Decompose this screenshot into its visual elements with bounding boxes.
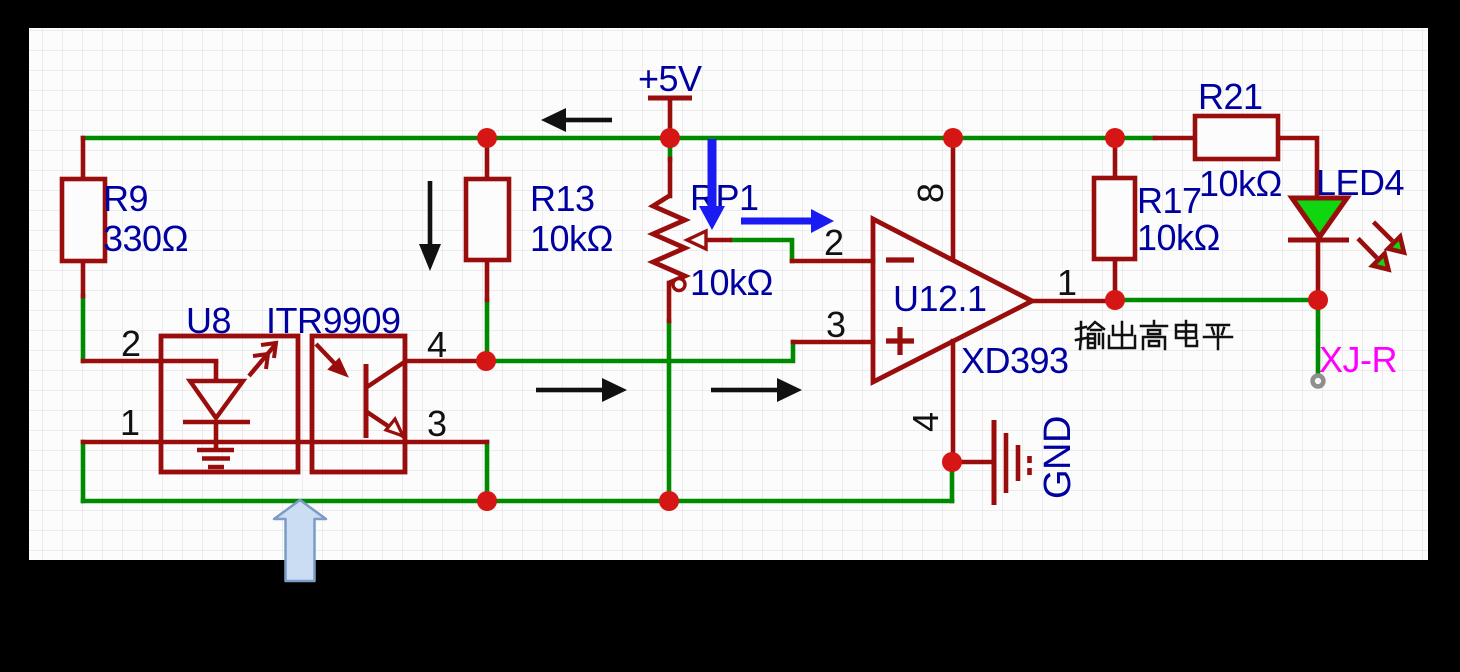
- svg-text:4: 4: [905, 412, 946, 432]
- opto LED ground bars: [197, 450, 234, 467]
- svg-text:RP1: RP1: [690, 177, 759, 218]
- wire R9 lower lead green: [81, 296, 86, 361]
- svg-text:2: 2: [121, 323, 141, 364]
- junction R17 top: [1105, 128, 1125, 148]
- wire left drop to bottom bus: [81, 442, 86, 501]
- wire top bus (+5V net): [83, 136, 1155, 141]
- wire GND drop: [950, 462, 955, 501]
- svg-text:10kΩ: 10kΩ: [1199, 163, 1282, 204]
- junction bus pin3: [477, 491, 497, 511]
- svg-text:10kΩ: 10kΩ: [530, 218, 613, 259]
- wire output net to LED: [1115, 298, 1318, 303]
- svg-text:GND: GND: [1037, 416, 1079, 499]
- resistor R17: [1094, 178, 1135, 259]
- junction +5V: [660, 128, 680, 148]
- black arrow down (left of R13): [419, 181, 441, 271]
- black arrow right (first): [536, 378, 627, 402]
- svg-text:R21: R21: [1198, 76, 1263, 117]
- wire LED to XJ-R: [1316, 300, 1321, 378]
- op-amp U12.1: [873, 219, 1032, 382]
- svg-text:10kΩ: 10kΩ: [1137, 217, 1220, 258]
- svg-text:R13: R13: [530, 178, 595, 219]
- wire R17 top lead: [1113, 138, 1118, 178]
- wire opto pin4: [405, 359, 486, 364]
- svg-text:XJ-R: XJ-R: [1319, 339, 1397, 380]
- blue arrow right: [741, 209, 834, 233]
- svg-text:LED4: LED4: [1316, 162, 1404, 203]
- char 电: [1176, 321, 1197, 346]
- ground GND symbol: [952, 420, 1030, 505]
- wire RP1 lower lead to bus: [667, 321, 672, 501]
- canvas background: [29, 28, 1428, 560]
- wire bottom bus (ground net): [83, 499, 952, 504]
- svg-text:3: 3: [826, 304, 846, 345]
- char 出: [1109, 322, 1135, 348]
- optocoupler U8 detector box: [312, 336, 405, 472]
- opto emission arrow: [249, 343, 276, 376]
- svg-text:XD393: XD393: [961, 340, 1069, 381]
- junction R13 top: [477, 128, 497, 148]
- LED LED4: [1288, 198, 1349, 240]
- wire opto pin1 to pin3: [83, 440, 487, 445]
- blue arrow down: [699, 139, 725, 230]
- power +5V symbol: [648, 98, 692, 138]
- wire R9 bottom lead: [81, 261, 86, 296]
- svg-text:10kΩ: 10kΩ: [690, 262, 773, 303]
- resistor R21: [1195, 116, 1278, 159]
- svg-text:4: 4: [427, 324, 447, 365]
- junction bus RP1: [659, 491, 679, 511]
- wire opto pin3 drop: [485, 442, 490, 501]
- wire R13 lower lead green: [485, 300, 490, 361]
- wire op-amp pin3 lead: [793, 340, 873, 345]
- svg-text:1: 1: [1057, 262, 1077, 303]
- wire R9 top lead: [81, 138, 86, 179]
- black arrow right (second): [711, 378, 802, 402]
- optocoupler U8 emitter box: [161, 336, 298, 472]
- svg-text:2: 2: [824, 222, 844, 263]
- svg-text:1: 1: [120, 402, 140, 443]
- potentiometer RP1: [653, 196, 732, 291]
- wire R13 bottom lead: [485, 260, 490, 300]
- svg-text:ITR9909: ITR9909: [266, 300, 401, 341]
- char 平: [1204, 325, 1232, 349]
- big light-blue arrow up: [274, 500, 326, 581]
- junction pin4 opto: [476, 351, 496, 371]
- chinese text 输出高电平 (output high level): [1076, 321, 1232, 349]
- svg-text:+5V: +5V: [638, 58, 702, 99]
- opto internal LED: [183, 361, 250, 449]
- char 高: [1141, 321, 1167, 349]
- wire op-amp pin4 lead: [951, 341, 956, 462]
- svg-text:330Ω: 330Ω: [103, 218, 188, 259]
- junction LED bottom: [1308, 290, 1328, 310]
- wire R21 left lead: [1155, 136, 1195, 141]
- wire RP1 wiper to op-amp pin2: [732, 240, 792, 261]
- svg-text:U12.1: U12.1: [893, 278, 987, 319]
- junction op-amp gnd: [942, 452, 962, 472]
- wire R13 top lead: [485, 138, 490, 179]
- wire op-amp pin8 lead: [951, 138, 956, 258]
- junction output R17: [1105, 290, 1125, 310]
- pin XJ-R terminal ring: [1313, 376, 1324, 387]
- wire op-amp output pin1: [1030, 299, 1115, 304]
- wire R17 bottom lead: [1113, 259, 1118, 300]
- wire RP1 upper lead: [668, 159, 673, 196]
- char 输: [1076, 322, 1104, 349]
- wire pin4 net horizontal to op-amp: [486, 342, 793, 361]
- wire RP1 bottom lead: [667, 283, 672, 321]
- resistor R9: [62, 179, 105, 261]
- wire RP1 top stub: [668, 144, 673, 159]
- black arrow left (top): [541, 108, 612, 132]
- svg-text:3: 3: [427, 403, 447, 444]
- wire opto pin2: [83, 359, 216, 364]
- resistor R13: [466, 179, 509, 260]
- LED4 light arrows: [1358, 222, 1404, 270]
- svg-text:R9: R9: [103, 178, 148, 219]
- opto reception arrow: [316, 344, 346, 375]
- wire LED cathode lead: [1316, 240, 1321, 300]
- wire op-amp pin2 lead: [792, 259, 873, 264]
- junction pin8: [943, 128, 963, 148]
- svg-text:8: 8: [910, 183, 951, 203]
- svg-text:R17: R17: [1137, 180, 1202, 221]
- opto phototransistor: [366, 361, 406, 438]
- svg-text:U8: U8: [186, 300, 231, 341]
- wire R21 right lead to LED: [1278, 138, 1317, 198]
